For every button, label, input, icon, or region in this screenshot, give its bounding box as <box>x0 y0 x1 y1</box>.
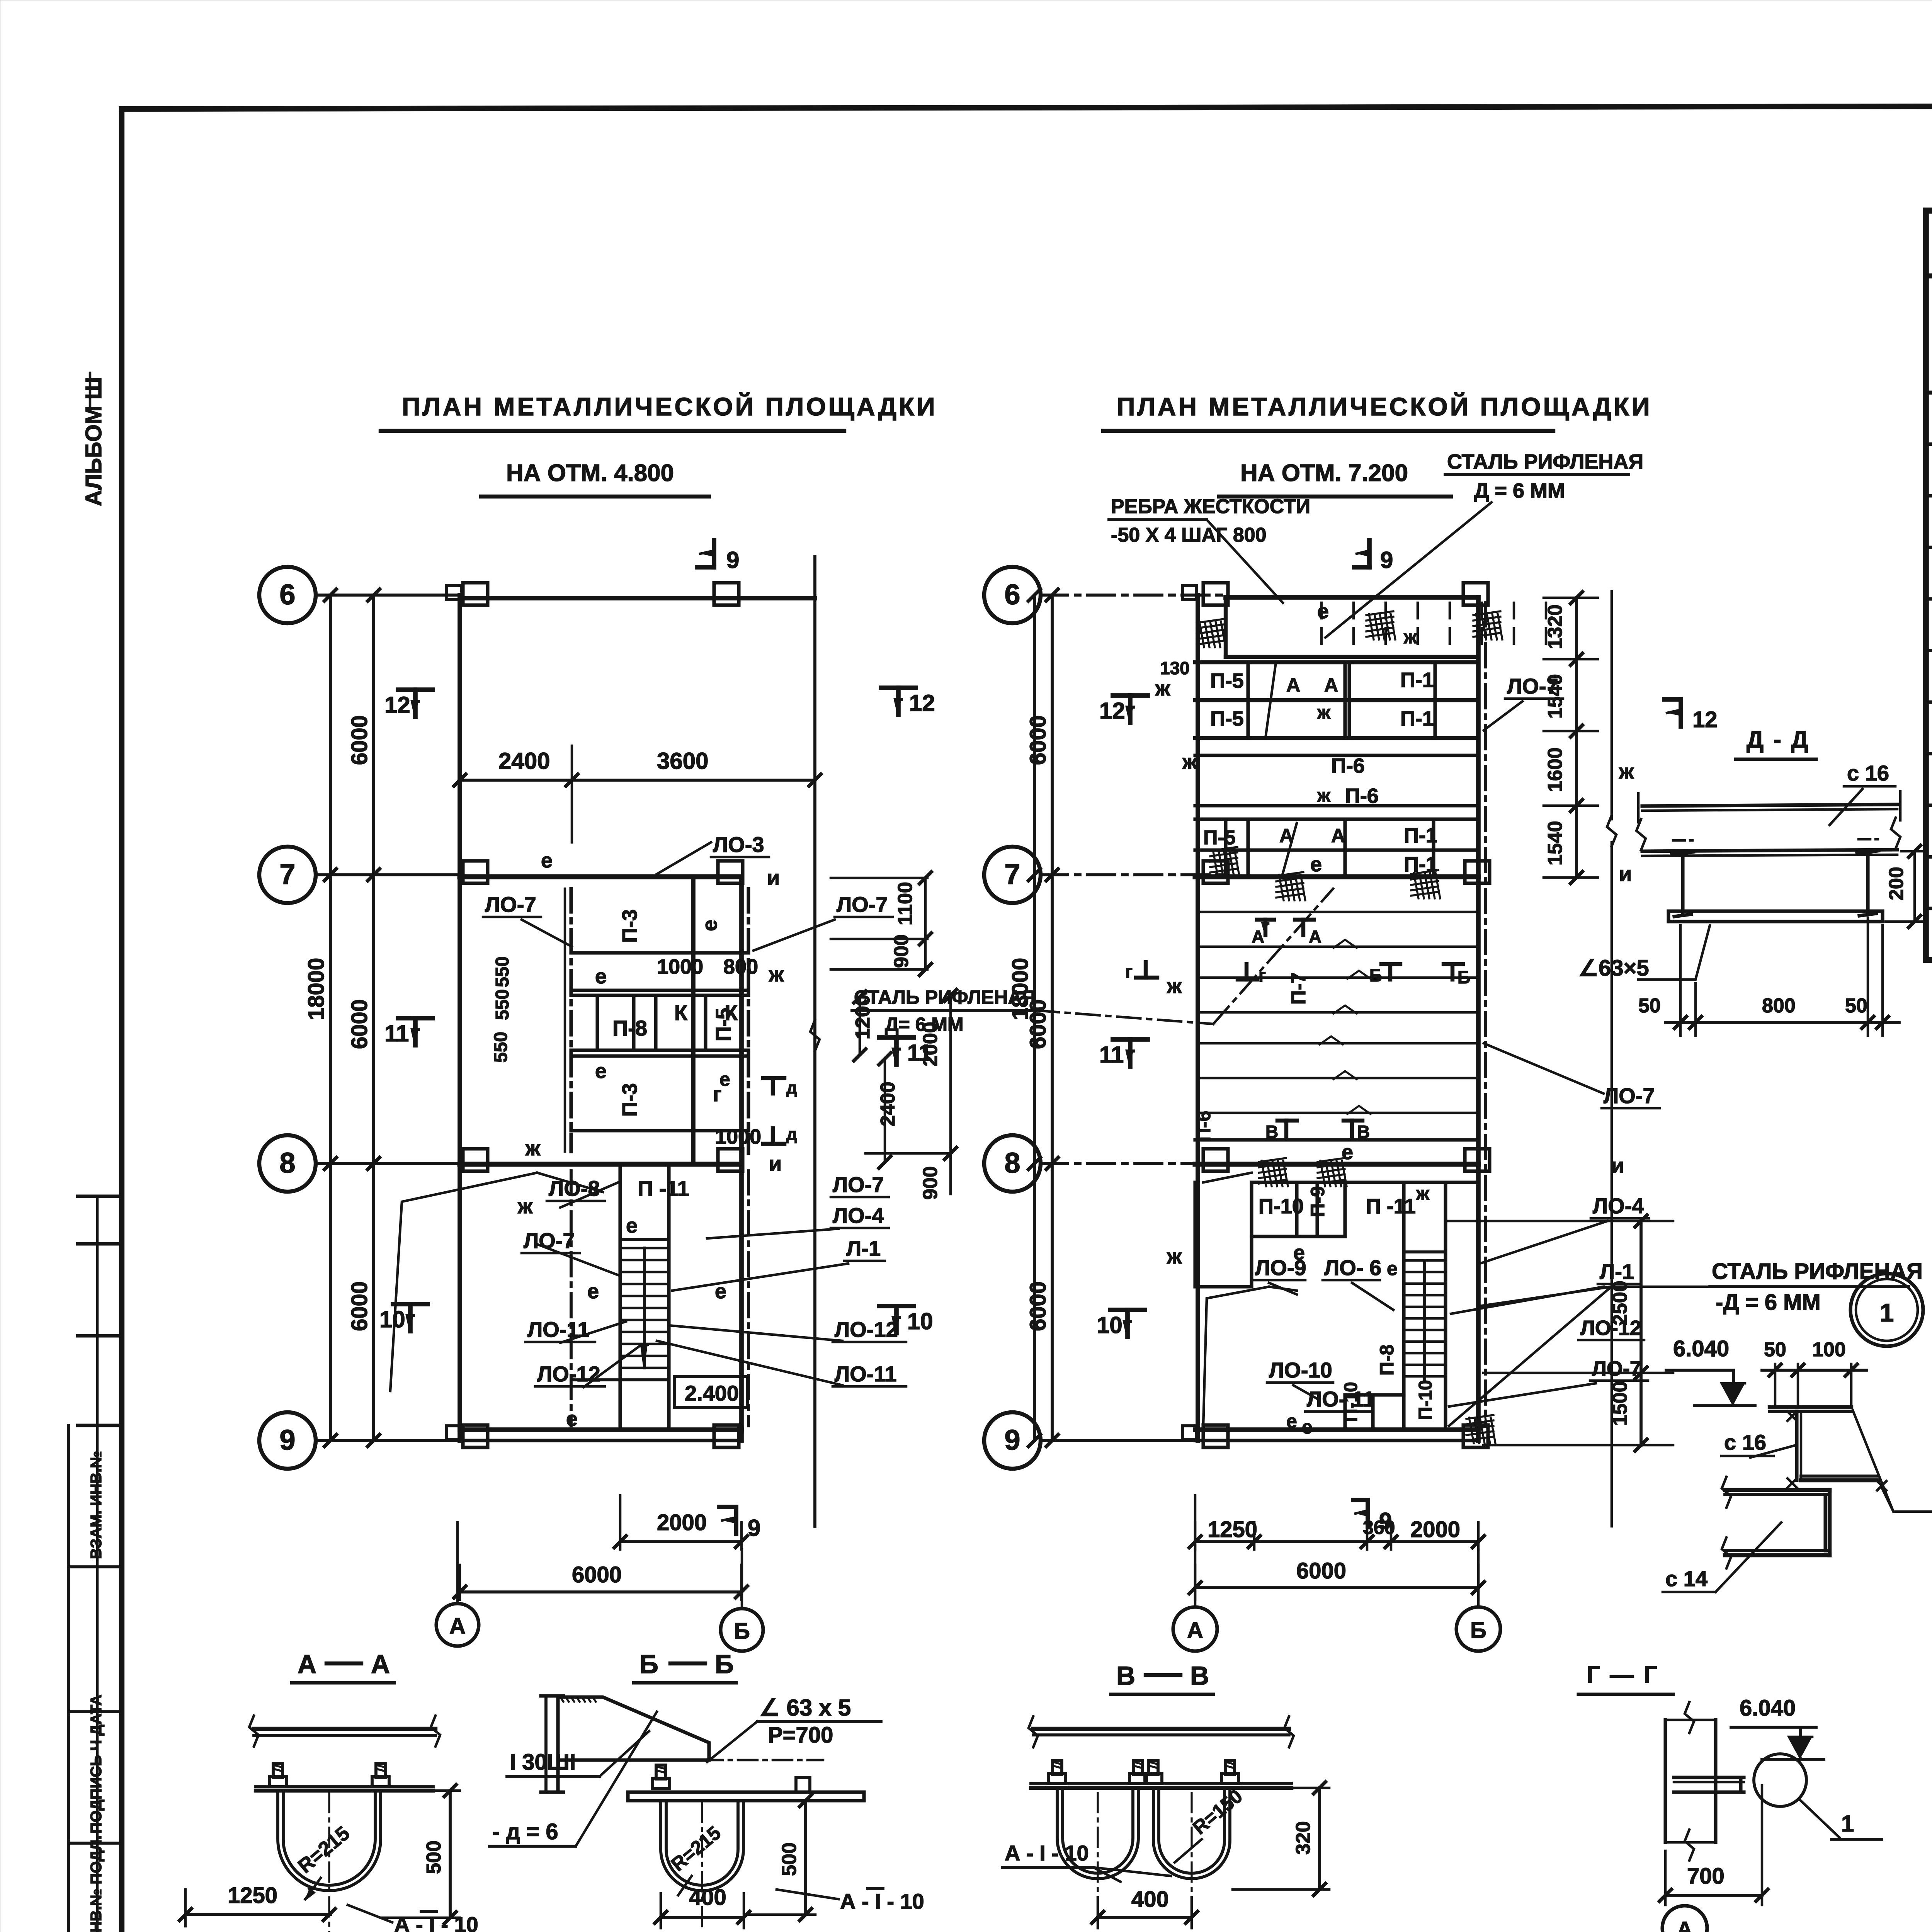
middle plan east wall <box>1476 597 1481 1440</box>
svg-text:СТАЛЬ РИФЛЕНАЯ: СТАЛЬ РИФЛЕНАЯ <box>854 986 1036 1008</box>
svg-text:Б: Б <box>715 1650 734 1679</box>
svg-text:1600: 1600 <box>1544 747 1566 792</box>
svg-text:П-5: П-5 <box>712 1008 735 1041</box>
svg-text:12: 12 <box>1099 698 1125 724</box>
svg-text:10: 10 <box>379 1306 405 1332</box>
svg-text:и: и <box>769 1152 782 1175</box>
svg-text:П-3: П-3 <box>618 1083 641 1117</box>
svg-text:В: В <box>1265 1122 1278 1142</box>
svg-text:11: 11 <box>1099 1042 1124 1068</box>
svg-text:1: 1 <box>1880 1298 1894 1327</box>
left margin small column with rotated labels <box>78 1194 122 1198</box>
svg-text:и: и <box>1619 862 1632 886</box>
svg-text:1250: 1250 <box>228 1883 277 1908</box>
svg-text:10: 10 <box>907 1308 933 1334</box>
svg-text:с 16: с 16 <box>1847 761 1889 785</box>
svg-text:1000: 1000 <box>657 955 703 978</box>
section Г-Г column <box>1663 1720 1667 1842</box>
grid bubble 7 <box>984 847 1041 903</box>
svg-text:2000: 2000 <box>1410 1517 1460 1542</box>
svg-text:РЕБРА ЖЕСТКОСТИ: РЕБРА ЖЕСТКОСТИ <box>1111 495 1310 518</box>
svg-text:1: 1 <box>1841 1811 1854 1837</box>
svg-text:130: 130 <box>1160 658 1190 678</box>
middle plan sec mark 9 bottom <box>1366 1500 1370 1527</box>
middle plan outline <box>1196 595 1200 1440</box>
svg-text:ЛО-11: ЛО-11 <box>835 1362 897 1386</box>
svg-text:50: 50 <box>1764 1338 1786 1361</box>
svg-text:- д = 6: - д = 6 <box>492 1819 558 1844</box>
svg-text:Б: Б <box>1470 1618 1486 1643</box>
middle plan stair shaft <box>1402 1182 1405 1430</box>
svg-text:3600: 3600 <box>657 748 708 774</box>
svg-text:ЛО-4: ЛО-4 <box>1593 1194 1644 1218</box>
svg-text:18000: 18000 <box>304 958 329 1020</box>
svg-text:Д= 6 ММ: Д= 6 ММ <box>885 1014 964 1035</box>
svg-text:6000: 6000 <box>347 999 372 1049</box>
svg-text:6000: 6000 <box>1026 1281 1051 1331</box>
svg-text:ЛО-12: ЛО-12 <box>835 1317 898 1342</box>
svg-text:12: 12 <box>384 692 410 718</box>
svg-text:ж: ж <box>1619 760 1634 783</box>
svg-text:550: 550 <box>492 956 513 987</box>
svg-text:6000: 6000 <box>1296 1558 1346 1583</box>
svg-text:1540: 1540 <box>1544 821 1566 866</box>
section Д-Д bottom plate <box>1668 909 1883 913</box>
svg-text:6000: 6000 <box>572 1562 622 1587</box>
svg-text:НА ОТМ. 7.200: НА ОТМ. 7.200 <box>1240 460 1408 486</box>
svg-text:ЛО-9: ЛО-9 <box>1255 1255 1306 1280</box>
middle plan hatch bottom right <box>1466 1415 1493 1419</box>
svg-text:ЛО-7: ЛО-7 <box>1592 1357 1641 1380</box>
section Д-Д lower beam <box>1642 850 1897 851</box>
middle plan column squares <box>1203 583 1228 605</box>
section Б-Б dim 500 <box>750 1799 815 1802</box>
svg-text:Л-1: Л-1 <box>846 1236 881 1260</box>
svg-text:е: е <box>595 1060 607 1083</box>
left plan break squiggle on east line <box>810 1020 820 1051</box>
left plan outline walls <box>457 595 462 1440</box>
section В-В U-bolts <box>1057 1788 1138 1879</box>
left plan boxes П-8 К П-5 <box>595 995 599 1050</box>
middle plan top slab ribs <box>1224 597 1228 657</box>
svg-text:ЛО- 11: ЛО- 11 <box>1307 1387 1375 1411</box>
svg-text:6000: 6000 <box>1026 715 1051 765</box>
svg-text:2400: 2400 <box>877 1082 899 1126</box>
svg-text:2.400: 2.400 <box>685 1381 739 1405</box>
section Г-Г detail circle <box>1754 1754 1806 1806</box>
svg-text:9: 9 <box>726 547 739 573</box>
svg-text:П -11: П -11 <box>1366 1195 1416 1218</box>
left plan platform east edge dash-dot <box>747 889 750 1153</box>
middle plan П-10 boxes bottom <box>1345 1393 1404 1396</box>
middle plan sec mark 9 top <box>1367 540 1372 567</box>
left plan stair treads <box>620 1247 669 1250</box>
svg-text:1320: 1320 <box>1544 604 1566 649</box>
middle plan hatch at grid8 <box>1259 1158 1286 1162</box>
svg-text:е: е <box>595 965 607 988</box>
middle plan big trapezoid leader <box>1203 1287 1269 1426</box>
left plan lower platform lines <box>571 1378 669 1381</box>
svg-text:6000: 6000 <box>347 1281 372 1331</box>
svg-text:и: и <box>1611 1154 1624 1177</box>
middle plan lower band П-10 П-9 П-11 <box>1193 1182 1197 1287</box>
svg-text:-50 Х 4 ШАГ 800: -50 Х 4 ШАГ 800 <box>1111 524 1267 546</box>
left plan section marks east <box>896 688 901 715</box>
section Д-Д dim 200 <box>1913 851 1916 922</box>
left plan bubble Б <box>721 1609 763 1651</box>
svg-text:2400: 2400 <box>498 748 550 774</box>
section В-В dim 320 <box>1236 1787 1329 1789</box>
svg-text:ж: ж <box>1155 677 1170 700</box>
svg-text:Б: Б <box>1369 965 1382 985</box>
svg-text:ЛО-7: ЛО-7 <box>837 892 888 917</box>
vertical dim chain 6000x3 and 18000 <box>329 595 332 1440</box>
svg-text:А: А <box>1187 1618 1203 1643</box>
svg-text:е: е <box>566 1407 578 1430</box>
section Д-Д cut mark 12 <box>1679 699 1683 726</box>
section A-A bolts <box>269 1777 286 1787</box>
svg-text:П-8: П-8 <box>612 1016 647 1040</box>
left plan top dim 2400 3600 <box>460 779 815 782</box>
left plan right dim chains <box>831 877 927 879</box>
svg-text:ПЛАН МЕТАЛЛИЧЕСКОЙ ПЛОЩАД: ПЛАН МЕТАЛЛИЧЕСКОЙ ПЛОЩАДКИ <box>402 392 937 421</box>
svg-text:АЛЬБОМ Ш: АЛЬБОМ Ш <box>81 377 106 507</box>
svg-text:360: 360 <box>1363 1517 1395 1538</box>
svg-text:Г — Г: Г — Г <box>1587 1662 1659 1688</box>
svg-text:Р=700: Р=700 <box>768 1723 833 1748</box>
detail weld x marks <box>1787 1412 1797 1421</box>
svg-text:д: д <box>786 1078 797 1097</box>
middle plan П-6 row above grid8 <box>1195 1138 1478 1141</box>
left plan stair shaft 8-9 <box>618 1164 622 1430</box>
detail channel C16 <box>1770 1405 1851 1409</box>
svg-text:ЛО-4: ЛО-4 <box>833 1203 884 1228</box>
section A-A beam <box>254 1727 435 1731</box>
svg-text:7: 7 <box>279 858 295 890</box>
svg-text:П-9: П-9 <box>1307 1186 1328 1217</box>
svg-text:П-5: П-5 <box>1210 669 1244 692</box>
middle plan hatch at grid7 <box>1276 872 1303 876</box>
svg-text:П-5: П-5 <box>1203 827 1236 849</box>
detail bubble 1 <box>1850 1274 1923 1346</box>
svg-text:9: 9 <box>1380 547 1393 573</box>
svg-text:8: 8 <box>279 1147 295 1179</box>
section A-A U-bolt <box>278 1791 381 1891</box>
section A-A centerline <box>328 1793 330 1932</box>
svg-text:г: г <box>1125 961 1133 981</box>
svg-text:е: е <box>626 1214 638 1237</box>
svg-text:НА ОТМ. 4.800: НА ОТМ. 4.800 <box>506 460 674 486</box>
svg-text:ж: ж <box>1416 1184 1430 1204</box>
svg-text:ж: ж <box>1317 702 1331 723</box>
middle plan beam break squiggles <box>1333 940 1357 948</box>
middle plan П-5/П-1 band rows <box>1195 660 1478 664</box>
middle plan hatch patches top <box>1197 619 1224 623</box>
svg-text:1250: 1250 <box>1207 1517 1257 1542</box>
left plan grid lines <box>316 594 460 597</box>
svg-text:8: 8 <box>1004 1147 1020 1179</box>
svg-text:ж: ж <box>1167 975 1182 998</box>
svg-text:е: е <box>1342 1141 1353 1164</box>
svg-text:с 14: с 14 <box>1665 1566 1708 1591</box>
svg-text:100: 100 <box>1812 1338 1846 1361</box>
svg-text:В: В <box>1116 1661 1135 1690</box>
svg-text:К: К <box>674 1000 688 1025</box>
middle plan east dim chain 1320-1540-1600-1540 <box>1575 598 1578 878</box>
svg-text:Б: Б <box>1458 967 1470 987</box>
section Б-Б gusset <box>558 1697 709 1760</box>
svg-text:е: е <box>541 849 553 872</box>
svg-text:ПЛАН МЕТАЛЛИЧЕСКОЙ ПЛОЩАДКИ: ПЛАН МЕТАЛЛИЧЕСКОЙ ПЛОЩАДКИ <box>1117 392 1652 421</box>
middle plan bubble Б <box>1456 1607 1500 1651</box>
left plan small sec marks д <box>771 1078 775 1094</box>
left plan column squares <box>463 583 488 605</box>
svg-text:е: е <box>1317 600 1329 623</box>
svg-text:1540: 1540 <box>1544 674 1566 719</box>
svg-text:ИНВ.№ ПОДЛ.: ИНВ.№ ПОДЛ. <box>88 1835 105 1932</box>
element table ВЕДОМОСТЬ ЭЛЕМЕНТОВ <box>1926 211 1932 960</box>
left plan leader diagonals to stairs <box>390 1173 537 1391</box>
middle plan east dash-dot edge <box>1484 603 1487 1426</box>
svg-text:50: 50 <box>1638 995 1661 1017</box>
svg-text:ЛО-8: ЛО-8 <box>549 1176 600 1201</box>
svg-text:7: 7 <box>1004 858 1020 890</box>
middle plan lower П-5/П-1 band <box>1195 817 1478 821</box>
svg-text:В: В <box>1190 1661 1209 1690</box>
svg-text:800: 800 <box>723 955 758 978</box>
middle plan sec mark Г mid <box>1245 964 1248 980</box>
svg-text:320: 320 <box>1292 1821 1315 1855</box>
detail channel C14 <box>1725 1488 1830 1492</box>
svg-text:∠63×5: ∠63×5 <box>1578 956 1649 981</box>
section Д-Д dims 50 800 50 <box>1679 925 1682 1036</box>
section A-A dim 500 <box>386 1789 460 1792</box>
svg-text:П-6: П-6 <box>1331 754 1365 777</box>
svg-text:А: А <box>1309 927 1321 947</box>
svg-text:ж: ж <box>1403 627 1417 648</box>
svg-text:А: А <box>1331 825 1345 847</box>
svg-text:500: 500 <box>778 1842 801 1876</box>
svg-text:П-6: П-6 <box>1193 1111 1214 1142</box>
left plan bottom dims <box>619 1495 622 1549</box>
section В-В beam <box>1033 1727 1289 1731</box>
svg-text:А: А <box>1252 927 1264 947</box>
svg-text:1500: 1500 <box>1609 1381 1631 1426</box>
svg-text:400: 400 <box>1131 1887 1169 1912</box>
left plan inner right dims <box>859 997 861 1055</box>
svg-text:д: д <box>786 1125 797 1144</box>
svg-text:6: 6 <box>279 578 295 611</box>
left plan center beam vertical <box>691 877 696 1164</box>
svg-text:ЛО-7: ЛО-7 <box>485 892 536 917</box>
svg-text:Б: Б <box>639 1650 658 1679</box>
left plan 2.400 level box <box>674 1376 748 1407</box>
grid bubble 6 <box>259 567 316 623</box>
section Б-Б I-beam <box>544 1696 548 1792</box>
svg-text:10: 10 <box>1097 1312 1122 1338</box>
svg-text:П-5: П-5 <box>1210 707 1244 730</box>
svg-text:П -11: П -11 <box>638 1176 689 1201</box>
section Д-Д top beam <box>1642 804 1897 806</box>
svg-text:I 30ШI: I 30ШI <box>510 1750 576 1775</box>
svg-text:А: А <box>1286 674 1300 696</box>
svg-text:ЛО-10: ЛО-10 <box>1269 1358 1332 1382</box>
svg-text:ЛО- 6: ЛО- 6 <box>1324 1255 1381 1280</box>
middle plan east dim chain 2500-1500 <box>1639 1221 1643 1445</box>
svg-text:Д = 6 ММ: Д = 6 ММ <box>1474 479 1565 502</box>
svg-text:В: В <box>1357 1122 1370 1142</box>
middle plan bubble A <box>1173 1607 1217 1651</box>
svg-text:П-1: П-1 <box>1400 707 1434 730</box>
svg-text:400: 400 <box>689 1885 726 1910</box>
left plan sec mark 9 bottom <box>734 1507 738 1534</box>
left plan sec mark 9 top <box>712 540 716 567</box>
section Б-Б seat plate <box>628 1790 864 1794</box>
svg-text:-Д = 6 ММ: -Д = 6 ММ <box>1716 1290 1821 1315</box>
svg-text:500: 500 <box>423 1840 445 1874</box>
svg-text:ж: ж <box>1182 750 1197 774</box>
left plan small column tabs <box>446 585 462 599</box>
svg-text:2000: 2000 <box>657 1510 707 1535</box>
svg-text:П-1: П-1 <box>1400 668 1434 692</box>
svg-text:г: г <box>713 1083 722 1106</box>
svg-text:А - I - 10: А - I - 10 <box>840 1889 924 1913</box>
svg-text:6000: 6000 <box>347 715 372 765</box>
left plan stair flight divider <box>643 1248 646 1368</box>
svg-text:12: 12 <box>1692 707 1718 732</box>
svg-text:П-8: П-8 <box>1376 1345 1398 1376</box>
svg-text:11: 11 <box>384 1020 409 1046</box>
middle plan sec marks А below grid7 <box>1264 920 1267 935</box>
svg-text:Б: Б <box>734 1619 750 1644</box>
svg-text:А: А <box>1677 1917 1692 1932</box>
section Г-Г channel piece <box>1674 1776 1744 1779</box>
svg-text:9: 9 <box>1004 1424 1020 1456</box>
svg-text:е: е <box>1310 853 1322 876</box>
svg-text:ЛО-11: ЛО-11 <box>527 1317 590 1342</box>
svg-text:800: 800 <box>1762 995 1796 1017</box>
middle plan П-6 beams <box>1195 753 1478 757</box>
svg-text:900: 900 <box>890 934 913 968</box>
svg-text:200: 200 <box>1885 867 1908 900</box>
svg-text:е: е <box>698 920 721 931</box>
svg-text:700: 700 <box>1687 1864 1725 1889</box>
svg-text:12: 12 <box>909 690 935 716</box>
left plan platform west edge dash-dot <box>569 889 573 1151</box>
svg-text:Д - Д: Д - Д <box>1747 726 1810 753</box>
svg-text:СТАЛЬ РИФЛЕНАЯ: СТАЛЬ РИФЛЕНАЯ <box>1447 450 1643 473</box>
middle plan east boundary line with break <box>1611 591 1613 819</box>
middle plan long beam field 7-8 <box>1198 911 1478 913</box>
svg-text:ж: ж <box>525 1137 541 1160</box>
svg-text:с 16: с 16 <box>1724 1430 1766 1454</box>
svg-text:П-3: П-3 <box>618 909 641 943</box>
vertical dim chain 6000x3 and 18000 <box>1033 595 1036 1440</box>
svg-text:ж: ж <box>1317 786 1331 806</box>
middle plan grid lines <box>1041 594 1229 597</box>
svg-text:е: е <box>1387 1258 1398 1279</box>
svg-text:е: е <box>1286 1410 1297 1432</box>
svg-text:ЛО-12: ЛО-12 <box>537 1362 600 1386</box>
section Г-Г bubble А <box>1662 1906 1707 1932</box>
svg-text:ПОДПИСЬ Ч ДАТА: ПОДПИСЬ Ч ДАТА <box>88 1695 105 1834</box>
grid bubble 7 <box>259 847 316 903</box>
svg-text:ЛО-7: ЛО-7 <box>833 1172 884 1197</box>
grid bubble 8 <box>984 1135 1041 1192</box>
sheet frame <box>122 105 1932 109</box>
svg-text:е: е <box>1302 1416 1313 1438</box>
svg-text:П-10: П-10 <box>1259 1195 1304 1218</box>
svg-text:А - I - 10: А - I - 10 <box>1005 1841 1089 1865</box>
section Б-Б U-bolt <box>661 1801 743 1891</box>
svg-text:ж: ж <box>1167 1245 1182 1268</box>
svg-text:А: А <box>1324 674 1338 696</box>
grid bubble 6 <box>984 567 1041 623</box>
middle plan bottom dims <box>1194 1495 1197 1549</box>
svg-text:1100: 1100 <box>894 882 917 925</box>
middle plan section marks west <box>1128 696 1133 723</box>
svg-text:9: 9 <box>748 1515 760 1541</box>
svg-text:550: 550 <box>491 1032 511 1063</box>
left plan interior beams 7-8 band <box>571 951 748 954</box>
svg-text:е: е <box>715 1280 726 1303</box>
svg-text:1000: 1000 <box>715 1125 761 1148</box>
svg-text:Л-1: Л-1 <box>1600 1259 1634 1284</box>
svg-text:6.040: 6.040 <box>1740 1696 1796 1721</box>
section Б-Б seat bolts <box>652 1778 669 1788</box>
svg-text:П-1: П-1 <box>1404 824 1437 847</box>
svg-text:∠ 63 х 5: ∠ 63 х 5 <box>759 1695 851 1721</box>
section В-В bolts <box>1049 1774 1066 1784</box>
svg-text:А: А <box>371 1650 390 1679</box>
svg-text:А - I - 10: А - I - 10 <box>394 1912 478 1932</box>
svg-text:П-7: П-7 <box>1287 972 1310 1005</box>
svg-text:ж: ж <box>517 1195 533 1218</box>
grid bubble 9 <box>984 1412 1041 1469</box>
svg-text:А: А <box>449 1614 466 1639</box>
middle plan sec mark Г west <box>1144 962 1148 978</box>
svg-text:ВЗАМ. ИНВ.№: ВЗАМ. ИНВ.№ <box>88 1451 105 1559</box>
section Д-Д bolts <box>1681 856 1684 915</box>
middle plan sec marks Б <box>1388 964 1392 980</box>
grid bubble 9 <box>259 1412 316 1469</box>
svg-text:ЛО-3: ЛО-3 <box>713 832 764 857</box>
left plan section marks west <box>413 690 418 717</box>
grid bubble 8 <box>259 1135 316 1192</box>
svg-text:6: 6 <box>1004 578 1020 611</box>
middle plan lower leaders <box>1203 1173 1252 1182</box>
svg-text:П-6: П-6 <box>1345 784 1379 808</box>
svg-text:9: 9 <box>279 1424 295 1456</box>
left plan bubble A <box>436 1604 479 1646</box>
svg-text:550: 550 <box>492 989 513 1020</box>
svg-text:е: е <box>587 1280 599 1303</box>
svg-text:ж: ж <box>769 963 784 986</box>
svg-text:ЛО-7: ЛО-7 <box>524 1228 575 1253</box>
svg-text:6.040: 6.040 <box>1673 1336 1729 1361</box>
svg-text:и: и <box>767 866 780 889</box>
svg-text:П-10: П-10 <box>1415 1380 1436 1420</box>
svg-text:900: 900 <box>919 1166 942 1200</box>
svg-text:50: 50 <box>1845 995 1867 1017</box>
svg-text:А: А <box>298 1650 316 1679</box>
